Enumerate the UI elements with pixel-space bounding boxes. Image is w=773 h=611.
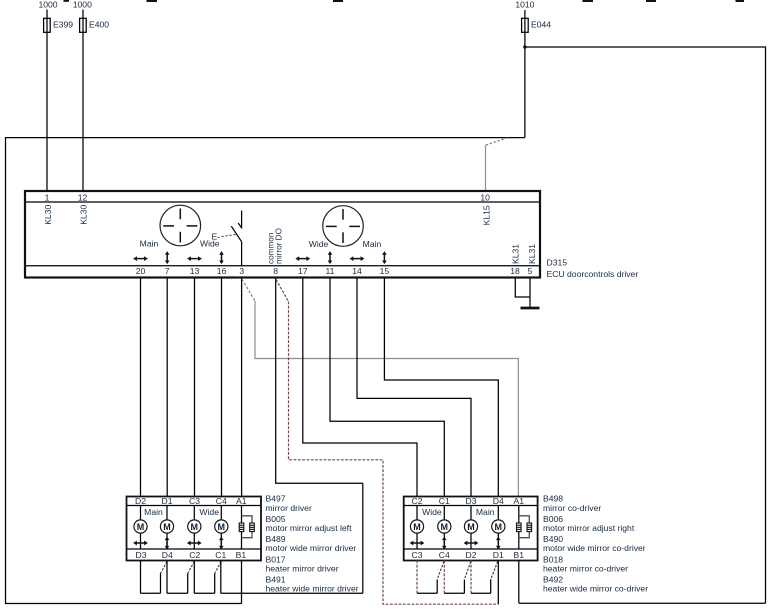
heater B017/B491 left <box>241 506 243 550</box>
arrows above ECU bottom pins <box>133 256 148 261</box>
svg-text:16: 16 <box>217 266 227 276</box>
wire pin18 to ground link <box>515 278 530 297</box>
svg-text:D1: D1 <box>162 496 173 506</box>
wire label box right edge <box>362 483 364 593</box>
D4 jog diagonal <box>161 562 167 574</box>
svg-text:Main: Main <box>140 239 159 249</box>
D1 jog diagonal <box>491 562 498 580</box>
wire pin15 to D4 co-driver <box>384 278 498 496</box>
svg-text:18: 18 <box>510 266 520 276</box>
svg-text:Wide: Wide <box>422 507 442 517</box>
svg-text:Main: Main <box>476 507 495 517</box>
svg-text:20: 20 <box>136 266 146 276</box>
dashed leader E to switch <box>222 234 237 236</box>
motor main M3 <box>464 520 477 533</box>
svg-text:heater mirror driver: heater mirror driver <box>266 564 339 574</box>
wire pin13 to C3 <box>194 278 196 496</box>
U3 bottom <box>471 592 491 594</box>
svg-text:1000: 1000 <box>38 0 57 10</box>
wire pin20 to D2 <box>140 278 142 496</box>
D2 offset vertical <box>463 580 465 594</box>
wire net 1000 into pin 1 <box>46 10 48 192</box>
svg-text:5: 5 <box>528 266 533 276</box>
svg-text:3: 3 <box>239 266 244 276</box>
svg-text:C2: C2 <box>189 550 200 560</box>
ECU inner top line <box>26 201 539 203</box>
svg-text:E399: E399 <box>53 19 73 29</box>
svg-text:D315: D315 <box>547 258 568 268</box>
motor wide M4 <box>215 520 228 533</box>
svg-text:C4: C4 <box>439 550 450 560</box>
D2 jog diagonal <box>464 562 470 580</box>
junction node on 1010 wire <box>523 45 526 48</box>
wire C2 down <box>193 561 195 594</box>
svg-text:Wide: Wide <box>309 239 329 249</box>
motor wide M1 <box>410 520 423 533</box>
svg-text:B1: B1 <box>514 550 525 560</box>
wire B1 down to bus <box>518 561 520 604</box>
svg-text:Wide: Wide <box>199 507 219 517</box>
switch blade <box>231 226 241 242</box>
svg-text:motor mirror adjust left: motor mirror adjust left <box>266 523 353 533</box>
C4 jog diagonal <box>437 562 444 580</box>
wire pin3 internal <box>241 242 243 266</box>
D1 offset vertical <box>490 580 492 594</box>
svg-text:E044: E044 <box>531 20 551 30</box>
svg-text:8: 8 <box>273 266 278 276</box>
wire dashed pin8 branch to D1 co-driver <box>289 302 499 605</box>
motor wires right box <box>416 506 418 550</box>
wire pin7 to D1 <box>166 278 168 496</box>
heater B018/B492 right <box>518 506 520 550</box>
svg-text:17: 17 <box>298 266 308 276</box>
svg-text:KL15: KL15 <box>481 205 491 225</box>
motor M2 <box>438 520 451 533</box>
svg-text:C4: C4 <box>216 496 227 506</box>
mirror adjust symbol left <box>160 205 201 246</box>
svg-text:KL31: KL31 <box>511 244 521 264</box>
svg-text:10: 10 <box>480 192 490 202</box>
motor mirror adjust M1 <box>134 520 147 533</box>
svg-text:motor wide mirror driver: motor wide mirror driver <box>266 543 357 553</box>
fuse E044 <box>522 18 529 32</box>
svg-text:13: 13 <box>190 266 200 276</box>
wire B1 down to bus <box>241 561 243 604</box>
ground <box>521 307 540 310</box>
svg-text:ECU doorcontrols driver: ECU doorcontrols driver <box>547 269 639 279</box>
C4 offset vertical <box>436 580 438 594</box>
wire right bottom bus to B1 co-driver <box>519 602 766 604</box>
svg-text:C1: C1 <box>215 550 226 560</box>
svg-text:1000: 1000 <box>73 0 92 10</box>
wire 1010 branch left loop <box>6 138 525 604</box>
C2 offset vertical <box>187 574 189 594</box>
connector B497 mirror driver box <box>127 497 262 561</box>
svg-text:KL31: KL31 <box>527 244 537 264</box>
connector B498 mirror co-driver box <box>404 497 538 561</box>
svg-text:A1: A1 <box>514 496 525 506</box>
U2 bottom <box>167 592 188 594</box>
svg-text:7: 7 <box>165 266 170 276</box>
wire C3 down dashed <box>416 561 418 594</box>
wire D4 down <box>166 561 168 594</box>
svg-text:D1: D1 <box>493 550 504 560</box>
wire jog dashed pin8 branch <box>276 279 289 301</box>
wire pin16 to C4 <box>221 278 223 496</box>
svg-text:Main: Main <box>144 507 163 517</box>
wire net 1010 / E044 feed <box>524 10 526 138</box>
svg-text:KL30: KL30 <box>79 205 89 225</box>
svg-text:D2: D2 <box>466 550 477 560</box>
wire 1010 branch to right edge <box>525 47 766 603</box>
fuse E400 <box>80 18 87 32</box>
ECU inner bottom line <box>26 265 539 267</box>
wire pin17 to C2 co-driver <box>303 278 417 496</box>
switch E contact <box>241 211 243 229</box>
svg-text:C3: C3 <box>412 550 423 560</box>
svg-text:motor wide mirror co-driver: motor wide mirror co-driver <box>543 543 646 553</box>
wire pin3 to A1 <box>241 278 243 496</box>
svg-text:C1: C1 <box>439 496 450 506</box>
svg-text:1010: 1010 <box>515 0 534 10</box>
motor wide M3 <box>188 520 201 533</box>
C1 jog diagonal <box>215 562 221 574</box>
wire net 1000 into pin 12 <box>82 10 84 192</box>
D4 offset vertical <box>160 574 162 594</box>
wire pin5 down <box>529 278 531 307</box>
svg-text:Main: Main <box>363 239 382 249</box>
motor wires left box <box>140 506 142 550</box>
U3 bottom <box>194 592 214 594</box>
svg-text:C2: C2 <box>412 496 423 506</box>
svg-text:E-: E- <box>212 231 221 241</box>
wire D2 down dashed <box>470 561 472 594</box>
wire C4 down dashed <box>443 561 445 594</box>
mirror adjust symbol right <box>323 206 364 247</box>
motor M2 <box>160 520 173 533</box>
wire jog (dashed gray) from 1010 corner to KL15 <box>486 138 508 145</box>
svg-text:heater wide mirror driver: heater wide mirror driver <box>266 584 359 594</box>
U1 bottom <box>417 592 437 594</box>
wire label box bottom / U4 bus <box>221 592 363 594</box>
C2 jog diagonal <box>188 562 195 574</box>
svg-text:C3: C3 <box>189 496 200 506</box>
svg-text:D4: D4 <box>493 496 504 506</box>
ECU box D315 <box>25 191 540 278</box>
fuse E399 <box>44 18 51 32</box>
svg-text:11: 11 <box>326 266 335 276</box>
wire D1 down to dashed bus <box>497 561 499 605</box>
arrows right box <box>410 541 425 546</box>
svg-text:14: 14 <box>352 266 362 276</box>
wire jog dashed gray pin3 branch <box>242 279 255 301</box>
U2 bottom <box>444 592 464 594</box>
svg-text:15: 15 <box>380 266 390 276</box>
svg-text:mirror driver: mirror driver <box>266 503 312 513</box>
svg-text:A1: A1 <box>236 496 247 506</box>
svg-text:D4: D4 <box>162 550 173 560</box>
C1 offset vertical <box>214 574 216 594</box>
svg-text:D2: D2 <box>135 496 146 506</box>
wire gray pin3 branch to A1 co-driver <box>255 301 518 497</box>
svg-text:heater wide mirror co-driver: heater wide mirror co-driver <box>543 584 648 594</box>
svg-text:D3: D3 <box>136 550 147 560</box>
svg-text:12: 12 <box>78 192 88 202</box>
svg-text:heater mirror co-driver: heater mirror co-driver <box>543 564 628 574</box>
svg-text:mirror co-driver: mirror co-driver <box>543 503 601 513</box>
wire gray into pin 10 <box>485 145 487 191</box>
wire D3 down <box>140 561 142 594</box>
motor M4 <box>492 520 505 533</box>
wire pin11 to C1 co-driver <box>330 278 444 496</box>
svg-text:E400: E400 <box>89 19 109 29</box>
svg-text:B1: B1 <box>236 550 247 560</box>
arrows left box <box>133 541 148 546</box>
svg-text:KL30: KL30 <box>43 205 53 225</box>
svg-text:motor mirror adjust right: motor mirror adjust right <box>543 523 635 533</box>
wire pin14 to D3 co-driver <box>357 278 471 496</box>
U1 bottom <box>141 592 161 594</box>
top edge crop marks <box>64 0 745 2</box>
svg-text:1: 1 <box>45 192 50 202</box>
svg-text:mirror DO: mirror DO <box>275 228 284 264</box>
svg-text:D3: D3 <box>466 496 477 506</box>
wire pin8 to driver connector box <box>276 278 363 483</box>
wire C1 down <box>220 561 222 594</box>
